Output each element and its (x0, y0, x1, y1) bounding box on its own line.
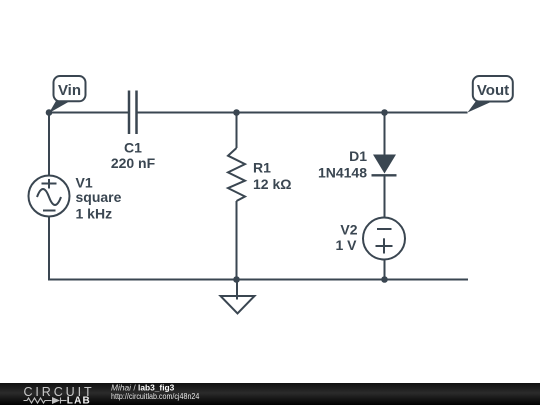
wire D1 top lead (384, 113, 386, 157)
wire D1-V2 lead (384, 175, 386, 218)
wire bottom rail (48, 279, 468, 281)
svg-text:R1: R1 (253, 160, 271, 176)
svg-text:220 nF: 220 nF (111, 155, 156, 171)
voltage source V1 (29, 176, 70, 217)
node dot R1 top (233, 109, 240, 116)
logo diode triangle (52, 397, 60, 404)
wire top rail right of C1 (138, 112, 468, 114)
capacitor C1 (129, 91, 137, 135)
label D1 1N4148 (318, 148, 367, 180)
label R1 12 kOhm (253, 160, 291, 193)
wire V2 bottom lead (384, 260, 386, 280)
svg-text:D1: D1 (349, 148, 367, 164)
flag Vin (49, 76, 86, 113)
svg-text:12 kΩ: 12 kΩ (253, 176, 291, 192)
node dot V2 bottom (381, 276, 388, 283)
wire V1 bottom lead (48, 217, 50, 280)
svg-text:1N4148: 1N4148 (318, 165, 367, 181)
diode D1 (372, 155, 397, 176)
svg-text:V2: V2 (340, 222, 357, 238)
resistor R1 (228, 148, 245, 201)
svg-text:LAB: LAB (67, 396, 91, 405)
wire top rail left of C1 (49, 112, 128, 114)
node dot Vin (46, 109, 53, 116)
svg-text:square: square (76, 189, 122, 205)
label V2 1 V (335, 222, 357, 254)
svg-text:1 kHz: 1 kHz (76, 206, 113, 222)
svg-text:Vout: Vout (477, 82, 509, 99)
node dot R1 bottom (233, 276, 240, 283)
voltage source V2 (363, 218, 405, 260)
footer bar (0, 383, 540, 405)
logo schematic line with resistor and diode (24, 398, 67, 404)
svg-text:C1: C1 (124, 140, 142, 156)
ground (221, 280, 255, 314)
label V1 square 1 kHz (76, 175, 122, 222)
label C1 220 nF (111, 140, 156, 172)
node dot D1 top (381, 109, 388, 116)
wire V1 top lead (48, 113, 50, 177)
wire R1 bottom lead (236, 201, 238, 280)
svg-text:1 V: 1 V (335, 237, 357, 253)
svg-text:Vin: Vin (58, 82, 81, 99)
wire R1 top lead (236, 113, 238, 149)
svg-text:http://circuitlab.com/cj48n24: http://circuitlab.com/cj48n24 (111, 392, 200, 402)
flag Vout (468, 76, 513, 113)
